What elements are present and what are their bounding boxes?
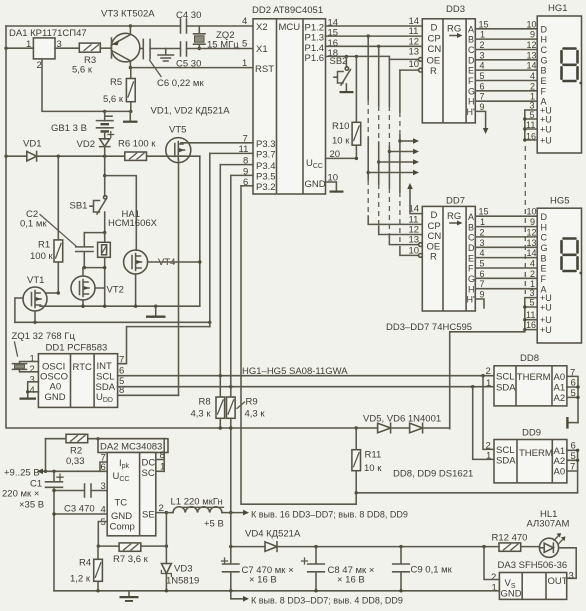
svg-text:GND: GND xyxy=(45,392,66,403)
svg-text:R2: R2 xyxy=(70,446,82,457)
svg-text:5,6 к: 5,6 к xyxy=(72,65,93,76)
chip DA2 MC34083 xyxy=(98,439,168,453)
svg-text:B: B xyxy=(468,35,474,45)
svg-text:Comp: Comp xyxy=(110,522,135,533)
ground SB2 xyxy=(340,91,354,93)
svg-text:+U: +U xyxy=(540,325,552,335)
svg-text:5: 5 xyxy=(530,298,535,308)
svg-text:0,1 мк: 0,1 мк xyxy=(20,219,47,230)
svg-text:DD8: DD8 xyxy=(520,353,539,364)
wire SCL drop to DD9 xyxy=(483,376,494,450)
wire DD8 address pins xyxy=(567,376,578,422)
svg-text:GND: GND xyxy=(111,511,132,522)
svg-text:C9 0,1 мк: C9 0,1 мк xyxy=(411,565,453,576)
svg-text:C: C xyxy=(468,233,475,243)
svg-text:2: 2 xyxy=(530,81,535,91)
svg-text:+9..25 В: +9..25 В xyxy=(4,468,40,479)
svg-text:A: A xyxy=(468,212,474,222)
svg-text:100 к: 100 к xyxy=(30,251,53,262)
svg-text:5: 5 xyxy=(101,517,106,528)
svg-text:+5 В: +5 В xyxy=(204,519,224,530)
callout line C6 xyxy=(150,60,162,77)
capacitor C9 xyxy=(393,547,410,591)
svg-text:10: 10 xyxy=(527,207,537,217)
svg-text:9: 9 xyxy=(480,102,485,112)
bus vertical CP xyxy=(368,36,422,224)
wire HG1 +U chain xyxy=(525,110,537,140)
svg-text:3: 3 xyxy=(569,571,574,582)
svg-text:14: 14 xyxy=(527,61,537,71)
svg-text:2: 2 xyxy=(37,60,42,71)
svg-text:DD3: DD3 xyxy=(446,4,465,15)
seven-seg digit HG1 xyxy=(562,49,578,82)
svg-text:0,33: 0,33 xyxy=(66,456,85,467)
svg-text:4: 4 xyxy=(530,259,535,269)
svg-text:16: 16 xyxy=(526,320,536,330)
svg-text:2: 2 xyxy=(486,366,491,377)
svg-text:15: 15 xyxy=(479,19,489,29)
wire R2 left drop xyxy=(45,439,47,472)
svg-text:CN: CN xyxy=(428,44,442,55)
ground mid xyxy=(155,306,157,315)
ground DD1 xyxy=(20,398,37,400)
svg-text:VD2: VD2 xyxy=(77,139,95,150)
svg-text:E: E xyxy=(541,76,547,86)
svg-text:R7 3,6 к: R7 3,6 к xyxy=(113,554,149,565)
svg-text:THERM: THERM xyxy=(517,372,551,383)
wire C2 top xyxy=(84,233,104,243)
svg-text:SC: SC xyxy=(142,468,155,479)
SEC1 top-left xyxy=(4,9,253,157)
SEC8 DA2 power xyxy=(2,434,408,591)
svg-text:2: 2 xyxy=(480,227,485,237)
svg-text:14: 14 xyxy=(527,248,537,258)
svg-text:C4 30: C4 30 xyxy=(176,10,201,21)
wires DD7 to HG5 xyxy=(475,216,537,289)
svg-text:A: A xyxy=(468,24,474,34)
svg-text:X1: X1 xyxy=(256,44,268,55)
svg-text:DA2 MC34083: DA2 MC34083 xyxy=(100,442,162,453)
svg-text:4,3 к: 4,3 к xyxy=(245,409,266,420)
wire address rail xyxy=(356,492,577,494)
svg-text:H': H' xyxy=(467,107,475,117)
svg-text:3: 3 xyxy=(480,50,485,60)
bus tap arrow 1 xyxy=(398,139,401,142)
bus vertical R xyxy=(400,70,419,255)
svg-text:1: 1 xyxy=(242,58,247,69)
wire VT1 drain to R1 xyxy=(45,292,58,294)
svg-text:9: 9 xyxy=(530,30,535,40)
svg-text:GND: GND xyxy=(501,589,522,600)
wire left rail and supply rail xyxy=(6,26,450,428)
capacitor C4 xyxy=(181,19,187,33)
svg-text:D: D xyxy=(468,55,475,65)
bus vertical CN xyxy=(379,46,423,234)
svg-text:4: 4 xyxy=(30,385,35,396)
wire SDA rail xyxy=(118,386,494,388)
wire VT1 gate xyxy=(15,298,23,322)
svg-text:G: G xyxy=(468,274,475,284)
crystal ZQ2 xyxy=(194,26,206,49)
svg-text:+U: +U xyxy=(540,136,552,146)
svg-text:5,6 к: 5,6 к xyxy=(103,94,124,105)
svg-text:× 16 В: × 16 В xyxy=(249,575,277,586)
wire P3.7 xyxy=(210,152,253,154)
svg-text:9: 9 xyxy=(480,290,485,300)
wire DD9 address pins xyxy=(567,450,578,493)
svg-text:× 16 В: × 16 В xyxy=(337,575,365,586)
svg-text:RTC: RTC xyxy=(73,362,92,373)
svg-text:+U: +U xyxy=(540,293,552,303)
capacitor C5 xyxy=(181,42,187,56)
wire DD7 D input arrow xyxy=(410,188,422,214)
svg-text:12: 12 xyxy=(527,40,537,50)
svg-text:4: 4 xyxy=(480,248,485,258)
svg-text:5: 5 xyxy=(242,39,247,50)
svg-text:X2: X2 xyxy=(256,22,268,33)
wires DD3 to HG1 xyxy=(475,29,537,101)
svg-text:HG1: HG1 xyxy=(548,3,568,14)
svg-text:A2: A2 xyxy=(554,456,566,467)
svg-text:C3 470: C3 470 xyxy=(64,504,95,515)
svg-text:C: C xyxy=(541,233,548,243)
svg-text:SDA: SDA xyxy=(496,456,516,467)
svg-text:7: 7 xyxy=(480,92,485,102)
bus tap arrow 3 xyxy=(377,160,380,163)
svg-text:H: H xyxy=(468,284,475,294)
wire DD3 H' cascade arrow xyxy=(475,111,485,129)
wire DD1 INT to P3.7 xyxy=(118,327,210,364)
wire LED to DA3 OUT xyxy=(559,548,577,579)
capacitor C7 xyxy=(223,513,240,591)
svg-text:DD3–DD7 74HC595: DD3–DD7 74HC595 xyxy=(386,322,472,333)
wire P3.4 vertical to R8 xyxy=(219,165,221,397)
svg-text:HG5: HG5 xyxy=(550,196,570,207)
svg-text:C: C xyxy=(468,45,475,55)
svg-text:SCL: SCL xyxy=(96,372,114,383)
svg-text:VD1: VD1 xyxy=(23,139,41,150)
svg-text:R1: R1 xyxy=(38,240,50,251)
svg-text:H: H xyxy=(541,222,548,232)
node HA1 top xyxy=(103,231,106,234)
svg-text:P1.6: P1.6 xyxy=(305,53,325,64)
svg-text:C: C xyxy=(541,45,548,55)
svg-text:A0: A0 xyxy=(50,382,62,393)
svg-text:MCU: MCU xyxy=(279,22,301,33)
svg-text:DD9: DD9 xyxy=(522,428,541,439)
svg-text:4: 4 xyxy=(530,71,535,81)
wire P3.5 vertical to R9 xyxy=(230,175,232,397)
svg-text:L1 220 мкГн: L1 220 мкГн xyxy=(171,497,223,508)
svg-text:OE: OE xyxy=(427,56,441,67)
svg-text:SB1: SB1 xyxy=(70,201,88,212)
bus vertical OE xyxy=(389,59,418,244)
svg-text:DD1 PCF8583: DD1 PCF8583 xyxy=(46,343,108,354)
svg-text:VT3 КТ502А: VT3 КТ502А xyxy=(101,9,155,20)
svg-text:A1: A1 xyxy=(554,383,566,394)
wire SDA drop to DD9 xyxy=(473,387,494,460)
svg-text:3: 3 xyxy=(530,288,535,298)
SEC4 left-mid transistors xyxy=(4,106,253,396)
svg-text:5: 5 xyxy=(480,259,485,269)
svg-text:15: 15 xyxy=(479,207,489,217)
seven-seg digit HG5 xyxy=(562,239,578,272)
resistor R3 xyxy=(79,43,100,52)
svg-text:F: F xyxy=(468,264,474,274)
svg-text:GB1 3 В: GB1 3 В xyxy=(51,123,87,134)
wire DD1 pins 3 4 to ground xyxy=(28,382,39,398)
svg-text:D: D xyxy=(431,23,438,34)
svg-text:3: 3 xyxy=(480,238,485,248)
wire X1 net xyxy=(150,48,253,50)
wire RST net xyxy=(130,67,253,69)
svg-text:1: 1 xyxy=(492,583,497,594)
svg-text:OUT: OUT xyxy=(548,576,568,587)
node VT3 emitter top xyxy=(129,24,132,27)
svg-text:220 мк ×: 220 мк × xyxy=(2,489,39,500)
bus tap arrow 2 xyxy=(388,150,391,153)
ground DD8 xyxy=(569,422,578,424)
svg-text:3: 3 xyxy=(530,101,535,111)
svg-text:RG: RG xyxy=(447,211,461,222)
wire P3.2 vertical to R11 xyxy=(241,186,356,504)
capacitor C8 xyxy=(308,547,325,591)
wire top rail X2 net xyxy=(6,25,253,27)
ground right of battery xyxy=(129,111,131,120)
svg-text:5: 5 xyxy=(480,71,485,81)
svg-text:R5: R5 xyxy=(110,77,122,88)
svg-text:13: 13 xyxy=(409,47,420,58)
svg-text:10 к: 10 к xyxy=(332,136,350,147)
svg-text:+U: +U xyxy=(540,303,552,313)
svg-text:R6 100 к: R6 100 к xyxy=(118,139,156,150)
svg-text:A0: A0 xyxy=(554,372,566,383)
svg-text:1: 1 xyxy=(480,217,485,227)
wire rail corner down xyxy=(199,156,201,306)
svg-text:RG: RG xyxy=(447,24,461,35)
svg-text:G: G xyxy=(541,55,548,65)
svg-text:P3.5: P3.5 xyxy=(256,172,276,183)
svg-text:P3.3: P3.3 xyxy=(256,139,276,150)
ground bottom xyxy=(128,591,130,596)
wire arrow to pins 8 xyxy=(231,591,244,599)
svg-text:DD8, DD9 DS1621: DD8, DD9 DS1621 xyxy=(393,469,473,480)
svg-text:E: E xyxy=(541,264,547,274)
svg-text:10: 10 xyxy=(527,19,537,29)
wire P1.4 to DD3 CN xyxy=(326,45,423,47)
wire P3.2 xyxy=(241,185,253,187)
wire P3.7 vertical xyxy=(209,153,211,326)
svg-text:SDA: SDA xyxy=(496,383,516,394)
svg-text:DC: DC xyxy=(142,458,156,469)
svg-text:6: 6 xyxy=(480,269,485,279)
SEC5 DD1 xyxy=(12,327,210,408)
svg-text:R8: R8 xyxy=(199,397,211,408)
wire DA1 pin1 xyxy=(6,47,33,49)
svg-text:3: 3 xyxy=(30,374,35,385)
ground near C6 xyxy=(158,49,174,62)
wire Ucc pin20 xyxy=(326,157,357,159)
wire P1.6 to DD3 OE xyxy=(326,56,419,59)
svg-text:D: D xyxy=(468,243,475,253)
ground DD2 xyxy=(330,191,344,193)
wire +U feed to supply xyxy=(450,330,525,429)
wire VT5 drain to P3.3 xyxy=(181,142,253,144)
svg-text:R4: R4 xyxy=(79,558,91,569)
svg-text:GND: GND xyxy=(305,179,326,190)
svg-text:D: D xyxy=(431,210,438,221)
svg-text:К выв. 16 DD3–DD7; выв. 8 DD8,: К выв. 16 DD3–DD7; выв. 8 DD8, DD9 xyxy=(251,510,408,520)
svg-text:SB2: SB2 xyxy=(330,56,348,67)
svg-text:+U: +U xyxy=(540,125,552,135)
wire DA3 Vs drop xyxy=(484,547,499,580)
crystal ZQ1 xyxy=(13,362,39,372)
svg-text:2: 2 xyxy=(530,269,535,279)
svg-text:RST: RST xyxy=(255,64,274,75)
svg-text:9: 9 xyxy=(530,217,535,227)
svg-text:DA3 SFH506-36: DA3 SFH506-36 xyxy=(498,560,568,571)
svg-text:НСМ1606Х: НСМ1606Х xyxy=(108,218,158,229)
svg-text:R9: R9 xyxy=(246,397,258,408)
svg-text:A0: A0 xyxy=(554,467,566,478)
svg-text:G: G xyxy=(468,86,475,96)
wire bottom ground rail xyxy=(54,590,499,592)
SEC9 output filter DA3 HL1 xyxy=(54,509,576,606)
svg-text:3: 3 xyxy=(101,481,106,492)
svg-text:7: 7 xyxy=(480,279,485,289)
svg-text:1: 1 xyxy=(486,378,491,389)
svg-text:H': H' xyxy=(467,295,475,305)
wire main battery rail xyxy=(6,155,200,157)
SEC3 bus DD3 HG1 DD7 HG5 xyxy=(326,3,583,429)
svg-text:2: 2 xyxy=(480,40,485,50)
capacitor C6 xyxy=(140,39,150,58)
pin numbers DD3 right xyxy=(479,19,537,112)
wire DA1 pin2 to battery xyxy=(42,59,131,112)
svg-text:F: F xyxy=(468,76,474,86)
svg-text:12: 12 xyxy=(527,227,537,237)
svg-text:SCL: SCL xyxy=(496,445,514,456)
svg-text:G: G xyxy=(541,243,548,253)
svg-text:1: 1 xyxy=(480,30,485,40)
svg-text:B: B xyxy=(541,253,547,263)
svg-text:C6 0,22 мк: C6 0,22 мк xyxy=(157,78,204,89)
svg-text:H: H xyxy=(541,35,548,45)
SEC7 supply rail VD5 VD6 R11 DD8 DD9 xyxy=(6,26,580,504)
wire +U dashed link xyxy=(524,146,526,294)
svg-text:VD4 КД521А: VD4 КД521А xyxy=(245,529,301,540)
svg-text:×35 В: ×35 В xyxy=(19,500,44,511)
wire +5V node xyxy=(222,512,244,514)
svg-text:F: F xyxy=(541,86,547,96)
wire DD1 UDD to VT5 xyxy=(118,394,179,396)
svg-text:АЛ307АМ: АЛ307АМ xyxy=(527,519,570,530)
svg-text:E: E xyxy=(468,66,474,76)
svg-text:SCL: SCL xyxy=(496,372,514,383)
svg-text:10: 10 xyxy=(409,245,420,256)
svg-text:R10: R10 xyxy=(332,121,349,132)
wire P3.5 xyxy=(231,174,253,176)
svg-text:К выв. 8 DD3–DD7; выв. 4 DD8,: К выв. 8 DD3–DD7; выв. 4 DD8, DD9 xyxy=(251,596,403,606)
svg-text:1: 1 xyxy=(30,354,35,365)
svg-text:11: 11 xyxy=(526,310,535,320)
wire DA1 pin3 to R3 xyxy=(55,47,79,49)
node left rail pin1 xyxy=(4,47,7,50)
svg-text:10 к: 10 к xyxy=(364,463,382,474)
wire VT1 source row xyxy=(15,321,210,323)
wire SCL rail xyxy=(118,375,494,377)
svg-text:P3.2: P3.2 xyxy=(256,182,276,193)
wire C2 bottom xyxy=(83,267,105,269)
svg-text:INT: INT xyxy=(97,361,113,372)
svg-text:1,2 к: 1,2 к xyxy=(70,574,91,585)
wire GND pin10 xyxy=(326,182,337,191)
svg-text:VT1: VT1 xyxy=(27,275,44,286)
svg-text:13: 13 xyxy=(409,235,420,246)
SEC6 i2c rails R8 R9 xyxy=(118,153,494,512)
svg-text:DD7: DD7 xyxy=(446,196,465,207)
svg-text:VT5: VT5 xyxy=(169,125,186,136)
wire VT5 source down to DD1 UDD xyxy=(178,160,180,396)
svg-text:DD2 AT89C4051: DD2 AT89C4051 xyxy=(252,5,323,16)
svg-text:D: D xyxy=(541,24,548,34)
wire DD7 H' stub xyxy=(475,299,484,308)
svg-text:VD3: VD3 xyxy=(174,564,192,575)
pin numbers DD7 right xyxy=(479,207,537,300)
svg-text:6: 6 xyxy=(480,81,485,91)
svg-text:TC: TC xyxy=(115,498,128,509)
wire HG5 +U chain xyxy=(525,298,537,330)
svg-text:13: 13 xyxy=(527,238,537,248)
svg-text:SE: SE xyxy=(142,510,155,521)
svg-text:VD1, VD2 КД521А: VD1, VD2 КД521А xyxy=(151,106,231,117)
svg-text:R11: R11 xyxy=(365,450,382,461)
svg-text:4: 4 xyxy=(480,61,485,71)
svg-text:VD5, VD6 1N4001: VD5, VD6 1N4001 xyxy=(363,414,441,425)
svg-text:B: B xyxy=(541,66,547,76)
svg-text:4,3 к: 4,3 к xyxy=(191,409,212,420)
svg-text:D: D xyxy=(541,212,548,222)
bus tap arrow 4 xyxy=(367,171,370,174)
SEC2 DD2 xyxy=(210,5,357,194)
svg-text:B: B xyxy=(468,222,474,232)
svg-text:13: 13 xyxy=(527,50,537,60)
svg-text:VT2: VT2 xyxy=(107,285,124,296)
svg-text:+U: +U xyxy=(540,115,552,125)
svg-text:F: F xyxy=(541,274,547,284)
wire VT2 source row xyxy=(40,305,200,307)
svg-text:R12 470: R12 470 xyxy=(492,533,528,544)
svg-text:R: R xyxy=(430,252,437,263)
svg-text:4: 4 xyxy=(242,16,247,27)
wire DD3 R xyxy=(400,69,419,71)
svg-text:E: E xyxy=(468,253,474,263)
svg-text:R: R xyxy=(430,66,437,77)
chip DA1 xyxy=(33,38,55,59)
wire P3.4 xyxy=(220,164,253,166)
svg-text:THERM: THERM xyxy=(519,448,553,459)
diode VD6 xyxy=(410,423,423,433)
svg-text:P3.7: P3.7 xyxy=(256,150,276,161)
wire VT4 drain link xyxy=(105,176,137,251)
wire P1.2 to DD3 D xyxy=(326,25,423,27)
svg-text:+U: +U xyxy=(540,315,552,325)
svg-text:P3.4: P3.4 xyxy=(256,161,276,172)
svg-text:H: H xyxy=(468,97,475,107)
wire P1.3 to DD3 CP xyxy=(326,35,423,37)
svg-text:2: 2 xyxy=(491,572,496,583)
svg-text:ZQ1 32 768 Гц: ZQ1 32 768 Гц xyxy=(12,331,76,342)
